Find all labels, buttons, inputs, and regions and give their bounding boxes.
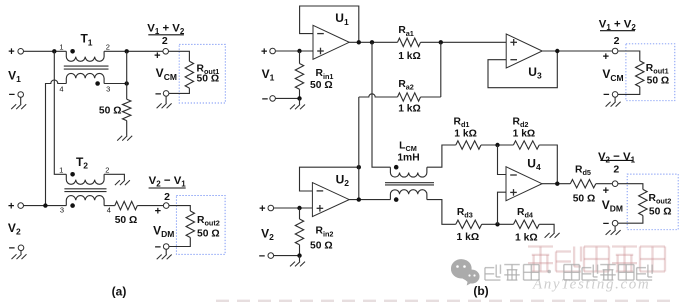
label U2 [336, 172, 350, 188]
phase dot LCM top [394, 165, 399, 170]
node V2- source terminal (a) [9, 243, 24, 255]
node junction U2 feedback tee [357, 165, 361, 169]
svg-text:4: 4 [107, 205, 111, 214]
transformer T2 primary winding [66, 174, 104, 184]
resistor Rd5 [570, 180, 596, 188]
svg-text:V2 − V1: V2 − V1 [598, 151, 636, 165]
ground under Rin2 [290, 262, 305, 267]
node junction T1 pin 3 [125, 81, 129, 85]
wire Ra1 to U3 input [421, 41, 507, 43]
wire Rin2 top stub [299, 208, 301, 219]
node output - terminal DM (a) [155, 241, 169, 253]
label fraction (V1+V2)/2 (b) [599, 18, 637, 47]
wire Rout2 bottom to - terminal (b) [618, 216, 643, 224]
label VDM (b) [602, 198, 623, 214]
wire - terminal to ground (b top) [614, 97, 616, 102]
label Rd3 [457, 207, 473, 220]
resistor Rout1 (b) [636, 61, 644, 87]
label Rd2 [513, 117, 529, 130]
label (a) [112, 285, 127, 299]
ground under DM output (a) [157, 255, 172, 260]
svg-text:2: 2 [613, 164, 619, 176]
label V1 (a) [8, 68, 21, 84]
wire + terminal into box (b top) [618, 51, 640, 61]
wire Rout1 bottom to - terminal (b) [618, 87, 640, 95]
inductor LCM top winding [390, 167, 426, 177]
node junction U4 output [555, 182, 559, 186]
svg-text:−: − [9, 243, 15, 255]
svg-text:1: 1 [59, 43, 63, 52]
svg-text:−: − [259, 251, 265, 263]
wire U2 output row [349, 199, 390, 201]
label V2 (b) [261, 226, 274, 242]
svg-text:1 kΩ: 1 kΩ [398, 51, 421, 62]
label 1 kohm Ra2 [398, 104, 421, 115]
wire Rd1 to Rd2 [481, 144, 513, 146]
label 50 ohm (a top) [99, 105, 122, 116]
pin 4 label T1 [59, 84, 63, 93]
label VCM (a) [156, 66, 177, 82]
wire Rin2 bottom stub [299, 245, 301, 256]
node junction Rin2 top [297, 206, 301, 210]
label 50 ohm Rin2 [310, 241, 333, 252]
node output + terminal CM (b) [603, 48, 618, 63]
op-amp U4 [506, 167, 542, 201]
wire T2 pin 2 to ground [104, 174, 124, 180]
wire T1 pin 3 to junction [104, 83, 127, 85]
svg-text:50 Ω: 50 Ω [197, 229, 220, 240]
dashed box Rout2 (a) [176, 196, 225, 255]
label 50 ohm Rin1 [310, 80, 333, 91]
svg-text:50 Ω: 50 Ω [647, 76, 670, 87]
ground under V2- (a) [12, 254, 27, 259]
node output + terminal DM (a) [155, 203, 169, 218]
wire Rd junction to U4 inverting input [498, 145, 507, 175]
ground under Rin1 [290, 105, 305, 110]
resistor Rin1 [295, 64, 303, 90]
label 1 kohm Rd3 [457, 232, 480, 243]
node junction T1 pin 2 column top [125, 49, 129, 53]
node junction U1 feedback [357, 40, 361, 44]
wire V1+ to T1 pin 1 [24, 50, 67, 52]
wire V2+ to T2 pin 3 [24, 205, 67, 207]
node junction U3 output [555, 49, 559, 53]
svg-text:1 kΩ: 1 kΩ [457, 232, 480, 243]
resistor 50 ohm (a top) [123, 99, 131, 120]
node V1+ source terminal (b) [261, 46, 275, 58]
transformer T1 core [64, 66, 109, 69]
resistor Rout1 (a) [185, 61, 193, 88]
transformer T2 core [64, 189, 106, 192]
wire choke top right lead to Rd1 row [427, 145, 456, 167]
svg-text:4: 4 [59, 84, 63, 93]
phase dot T1 pin 1 [70, 49, 75, 54]
wire + terminal into box (b bottom) [618, 184, 643, 190]
dashed box Rout1 (b) [626, 44, 675, 101]
ground under 50 ohm resistor (a) [117, 136, 132, 141]
wire choke bottom right lead to Rd3 row [427, 200, 456, 225]
wire T1 pin 4 with hop over vertical [46, 80, 67, 206]
resistor Ra1 [398, 38, 421, 46]
phase dot T2 pin 1 [70, 172, 75, 177]
svg-text:3: 3 [60, 205, 64, 214]
label U4 [527, 156, 541, 172]
node junction Ra1 Ra2 join [439, 40, 443, 44]
svg-text:1 kΩ: 1 kΩ [454, 129, 477, 140]
resistor Rd1 [456, 141, 481, 149]
wire junction column down to resistor [126, 51, 128, 99]
ground at T2 pin 2 [115, 180, 130, 185]
inductor LCM core [385, 183, 434, 185]
label 50 ohm Rout1 (b) [647, 76, 670, 87]
wire V1+ junction down to T2 pin 1 [54, 51, 66, 174]
resistor 50 ohm (a bottom) [115, 201, 138, 209]
svg-text:(b): (b) [473, 284, 488, 298]
wire Rout2 bottom to - terminal (a) [169, 238, 190, 247]
svg-text:50 Ω: 50 Ω [99, 105, 122, 116]
watermark red CJK text [528, 247, 665, 272]
pin 1 label T1 [59, 43, 63, 52]
ground after Rd4 [545, 233, 560, 238]
node output - terminal DM (b) [603, 218, 618, 230]
transformer T1 primary winding [66, 51, 104, 61]
svg-text:2: 2 [106, 43, 110, 52]
resistor Rd2 [513, 141, 539, 149]
label Rout1 (b) [646, 63, 669, 76]
wire V2+ to U2 noninverting input [274, 207, 313, 209]
node output - terminal CM (b) [603, 89, 618, 101]
ground under V1- (a) [11, 104, 26, 109]
svg-text:+: + [154, 50, 160, 62]
label U3 [528, 65, 542, 81]
node junction V1+ column [52, 49, 56, 53]
node output + terminal CM (a) [154, 49, 168, 62]
pin 1 label T2 [59, 166, 63, 175]
svg-text:50 Ω: 50 Ω [649, 206, 672, 217]
watermark bottom cropped row [216, 300, 672, 302]
transformer T1 label [80, 32, 92, 48]
svg-text:+: + [259, 203, 265, 215]
label 1mH [397, 153, 419, 164]
label fraction (V1+V2)/2 (a) [147, 23, 185, 47]
node V1+ source terminal (a) [8, 46, 23, 58]
wire Rd4 to ground [539, 224, 554, 233]
label 50 ohm (a bottom) [115, 215, 138, 226]
wire V1- ground stub [20, 97, 22, 104]
wire Rd2 to U4 output node [539, 145, 557, 184]
node V2- source terminal (b) [259, 251, 274, 263]
pin 3 label T1 [106, 85, 110, 94]
dashed box Rout2 (b) [627, 174, 678, 230]
wire + terminal into box (a bottom) [169, 206, 190, 211]
transformer T2 label [76, 155, 88, 171]
node output - terminal CM (a) [155, 88, 169, 100]
svg-text:+: + [603, 185, 609, 197]
inductor LCM label [399, 140, 417, 153]
node junction T1 pin 4 on V2 line [43, 203, 47, 207]
label Ra2 [398, 79, 414, 92]
svg-text:−: − [603, 218, 609, 230]
svg-text:2: 2 [614, 35, 620, 47]
wire - terminal to ground (b bottom) [614, 226, 616, 230]
node junction Rin1 top [297, 49, 301, 53]
wire Rin1 top stub [299, 51, 301, 64]
wire + terminal into box (a top) [169, 51, 190, 61]
svg-text:50 Ω: 50 Ω [573, 194, 596, 205]
wire T1 pin 2 to output [104, 50, 163, 52]
label VDM (a) [153, 223, 174, 239]
label 50 ohm Rout2 (b) [649, 206, 672, 217]
wire T2 pin 4 to resistor [104, 205, 115, 207]
svg-text:AnyTesting.com: AnyTesting.com [532, 277, 650, 293]
svg-text:V1 + V2: V1 + V2 [599, 18, 637, 32]
svg-text:50 Ω: 50 Ω [197, 74, 220, 85]
wire Ra2 riser [440, 42, 442, 97]
ground under CM output (a) [157, 103, 172, 108]
label Rd5 [575, 165, 591, 178]
wire V2- to Rin2 bottom [274, 255, 300, 257]
wire choke tap vertical from U1 output [372, 42, 390, 167]
node junction U2 output [357, 197, 361, 201]
dashed box Rout1 (a) [179, 44, 225, 103]
label Rout2 (a) [197, 215, 220, 228]
label 1 kohm Rd4 [515, 233, 538, 244]
op-amp U1 [313, 25, 349, 59]
node V1- source terminal (b) [262, 93, 276, 105]
wire V1+ to U1 noninverting input [275, 50, 313, 52]
svg-text:3: 3 [106, 85, 110, 94]
label Rd1 [454, 117, 470, 130]
svg-text:(a): (a) [112, 285, 127, 299]
label 1 kohm Rd2 [513, 129, 536, 140]
node V2+ source terminal (a) [8, 201, 24, 213]
label Rd4 [517, 207, 534, 220]
svg-text:2: 2 [105, 165, 109, 174]
label 50 ohm Rout1 (a) [197, 74, 220, 85]
svg-text:1 kΩ: 1 kΩ [513, 129, 536, 140]
label (b) [473, 284, 488, 298]
wire Rd3 to Rd4 [482, 223, 514, 225]
svg-text:−: − [603, 89, 609, 101]
node junction Rd1 Rd2 [495, 143, 499, 147]
label U1 [335, 11, 349, 27]
node junction Rin1 bottom [297, 96, 301, 100]
svg-text:2: 2 [164, 191, 170, 203]
wire U1 feedback loop [300, 6, 359, 42]
label fraction (V2-V1)/2 (a) [149, 175, 187, 203]
svg-text:50 Ω: 50 Ω [310, 80, 333, 91]
wire U3 feedback loop [488, 51, 557, 88]
wire U3 output [542, 50, 612, 52]
node V1- source terminal (a) [9, 89, 24, 101]
resistor Rd3 [456, 220, 482, 228]
svg-text:1mH: 1mH [397, 153, 419, 164]
wire U2 feedback loop [300, 167, 359, 191]
svg-text:1 kΩ: 1 kΩ [515, 233, 538, 244]
label 50 ohm Rout2 (a) [197, 229, 220, 240]
label 1 kohm Rd1 [454, 129, 477, 140]
svg-text:+: + [8, 201, 14, 213]
label 50 ohm Rd5 [573, 194, 596, 205]
wire U1 output row [349, 41, 397, 43]
watermark AnyTesting.com [532, 277, 650, 293]
wire V2- ground stub [20, 251, 22, 255]
watermark WeChat icon [451, 259, 480, 285]
label Rout2 (b) [649, 193, 672, 206]
transformer T2 secondary winding [66, 196, 104, 206]
phase dot LCM bottom [394, 197, 399, 202]
resistor Ra2 [398, 93, 421, 101]
resistor Rd4 [514, 220, 540, 228]
pin 2 label T2 [105, 165, 109, 174]
wire Rd5 to DM + terminal (b) [596, 183, 613, 185]
svg-text:+: + [261, 46, 267, 58]
ground under DM output (b) [606, 230, 621, 235]
wire resistor to ground (a top) [126, 121, 128, 136]
svg-text:+: + [8, 46, 14, 58]
node junction Rin2 bottom [297, 253, 301, 257]
label Ra1 [398, 25, 414, 38]
label 1 kohm Ra1 [398, 51, 421, 62]
resistor Rin2 [295, 219, 303, 245]
wire Ra2 row with hop [359, 94, 441, 97]
op-amp U3 [506, 34, 542, 68]
svg-text:−: − [262, 93, 268, 105]
phase dot T2 pin 3 [70, 203, 75, 208]
wire - terminal to ground (a bottom) [165, 249, 167, 254]
phase dot T1 pin 3 [95, 81, 100, 86]
label V1 (b) [262, 67, 275, 83]
wire - terminal to ground (a top) [165, 96, 167, 103]
svg-text:50 Ω: 50 Ω [310, 241, 333, 252]
wire U4 output to Rd5 [542, 183, 570, 185]
wire Rd junction to U4 noninverting input [498, 192, 507, 224]
node output + terminal DM (b) [603, 181, 618, 197]
wire Rout1 bottom to - terminal (a) [169, 88, 190, 93]
label V2 (a) [8, 221, 21, 237]
svg-text:1 kΩ: 1 kΩ [398, 104, 421, 115]
node junction choke tap top [370, 40, 374, 44]
resistor Rout2 (a) [186, 211, 194, 238]
ground under CM output (b) [606, 102, 621, 107]
wire U2 riser to Ra2 [358, 97, 360, 200]
label fraction (V2-V1)/2 (b) [598, 151, 636, 176]
svg-text:1: 1 [59, 166, 63, 175]
label Rout1 (a) [197, 63, 220, 76]
wire Rin1 bottom stub [299, 89, 301, 98]
node V2+ source terminal (b) [259, 203, 273, 215]
svg-text:50 Ω: 50 Ω [115, 215, 138, 226]
op-amp U2 [312, 183, 349, 217]
wire resistor to DM + terminal [137, 205, 163, 207]
svg-text:+: + [155, 205, 161, 217]
inductor LCM bottom winding [390, 190, 426, 200]
resistor Rout2 (b) [639, 189, 647, 215]
svg-text:−: − [9, 89, 15, 101]
wire V1- to Rin1 bottom [275, 97, 299, 99]
pin 2 label T1 [106, 43, 110, 52]
label VCM (b) [602, 67, 623, 83]
pin 3 label T2 [60, 205, 64, 214]
svg-text:−: − [155, 241, 161, 253]
label Rin2 [316, 226, 334, 239]
svg-text:−: − [155, 88, 161, 100]
node junction Rd3 Rd4 [495, 222, 499, 226]
wire ground stub under Rin1 [299, 98, 301, 104]
label Rin1 [316, 68, 334, 81]
watermark gray CJK text [485, 265, 652, 281]
wire ground stub under Rin2 [299, 256, 301, 262]
transformer T1 secondary winding [66, 73, 104, 83]
pin 4 label T2 [107, 205, 111, 214]
svg-text:+: + [603, 51, 609, 63]
svg-text:V2 − V1: V2 − V1 [149, 175, 187, 189]
svg-text:2: 2 [162, 35, 168, 47]
